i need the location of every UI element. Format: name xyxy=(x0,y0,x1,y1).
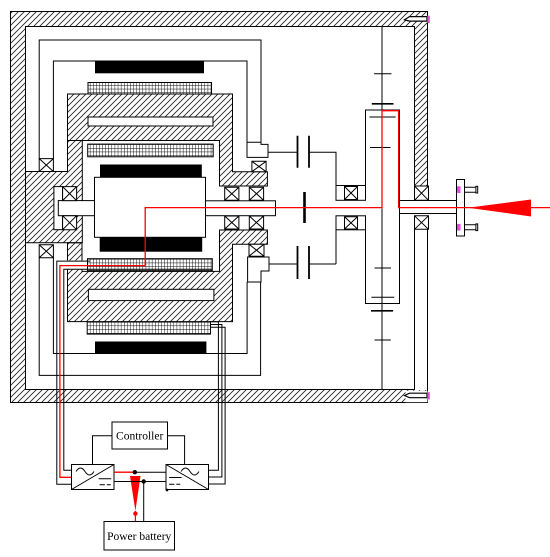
wire channel gap xyxy=(66,260,83,269)
gear input bearing box upper xyxy=(336,186,366,201)
power battery box xyxy=(104,522,175,551)
winding W3 xyxy=(88,259,213,271)
controller box xyxy=(112,422,168,449)
gear lower tick xyxy=(375,339,391,341)
gear shaft stem upper xyxy=(381,26,383,110)
bearing shaft right upper A xyxy=(225,187,239,200)
planetary gear body xyxy=(366,110,400,304)
stator lower slot xyxy=(88,289,213,300)
magnet M3 xyxy=(100,237,203,251)
gear inner ticks xyxy=(369,117,395,297)
bearing hub top xyxy=(63,187,77,201)
inverter 2 xyxy=(166,465,209,490)
right wall white portion below bearings xyxy=(414,186,429,390)
bearing flange top right xyxy=(252,161,266,171)
frame bolt bottom xyxy=(405,393,428,398)
plate notch xyxy=(54,187,63,230)
svg-text:Power battery: Power battery xyxy=(107,531,171,543)
bearing hub bottom xyxy=(63,216,77,230)
bottom-right bolt recess xyxy=(406,391,428,402)
magnet M4 xyxy=(95,342,206,354)
flange bolt upper xyxy=(465,187,477,192)
junction dot lower xyxy=(142,479,146,483)
bearing R3/R4 left bottom xyxy=(39,245,53,258)
dc bus wire upper red segment xyxy=(114,471,135,473)
clutch leads upper xyxy=(268,152,336,264)
outer rotor cup R3 lower xyxy=(39,258,260,376)
lower flange of outer rotor (right) xyxy=(248,257,269,282)
winding W2 xyxy=(88,144,214,157)
output shaft xyxy=(400,201,457,214)
outer rotor cup R4 upper xyxy=(53,61,247,159)
controller leads xyxy=(93,436,185,465)
clutch lower plates xyxy=(298,246,310,279)
dc bus wire lower xyxy=(114,481,166,483)
magnet M1 xyxy=(95,61,204,73)
gear center shaft lower xyxy=(381,209,383,390)
gear input bearing box lower xyxy=(336,216,366,230)
gear stem wide tick xyxy=(372,103,394,105)
clutch hub mark xyxy=(303,192,306,223)
dc bus wire upper black segment xyxy=(135,471,166,473)
upper flange of outer rotor (right) xyxy=(247,142,268,157)
clutch upper plates xyxy=(298,136,310,168)
shaft right segment xyxy=(206,201,276,216)
battery wire xyxy=(143,482,145,522)
bearing shaft right lower A xyxy=(225,216,239,229)
bearing shaft right lower B xyxy=(249,216,263,229)
bearing housing right wall upper xyxy=(415,186,429,200)
junction dot upper xyxy=(133,470,137,474)
inner rotor body xyxy=(95,177,206,237)
svg-text:Controller: Controller xyxy=(116,431,163,443)
outer rotor cup R3 upper xyxy=(39,40,261,159)
bearing R3/R4 left top xyxy=(39,159,53,172)
flange bolt lower xyxy=(465,225,477,230)
frame bolt top xyxy=(405,17,428,22)
gear stem tick xyxy=(374,73,391,75)
motor phase wires right (to inverter 2) xyxy=(209,322,219,471)
stator core upper block with legs and right plate xyxy=(68,94,268,186)
outer rotor cup R4 lower xyxy=(53,258,247,354)
hub xyxy=(58,201,94,216)
motor phase wires left (to inverter 1) xyxy=(57,261,90,484)
stator left support plate with upper leg xyxy=(26,141,83,243)
right wall inner edge line xyxy=(415,186,428,390)
winding W4 xyxy=(87,322,210,334)
magnet M2 xyxy=(100,165,202,178)
stator upper slot xyxy=(88,117,213,126)
bearing flange bottom right xyxy=(249,244,264,256)
bearing shaft right upper B xyxy=(249,187,263,200)
housing frame hatched ring xyxy=(11,12,428,403)
red charge arrow xyxy=(130,476,141,511)
bearing housing right wall lower xyxy=(415,216,429,230)
inverter 2 corner dot xyxy=(166,489,169,492)
bearing cup-left upper xyxy=(39,159,428,258)
output flange plate xyxy=(457,180,465,237)
inverter 1 xyxy=(72,465,115,490)
red output arrow xyxy=(468,200,531,217)
stator core lower block with legs and right plate xyxy=(68,230,268,322)
red power flow line xyxy=(60,111,550,478)
gear lower wide tick xyxy=(371,310,393,312)
winding W1 xyxy=(88,83,212,95)
